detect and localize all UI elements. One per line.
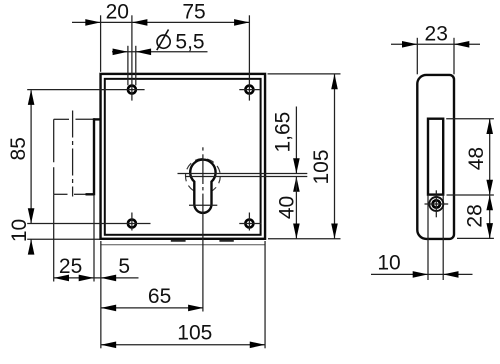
svg-text:20: 20 xyxy=(106,0,129,23)
svg-text:40: 40 xyxy=(275,196,298,219)
svg-text:48: 48 xyxy=(465,147,488,170)
svg-text:5: 5 xyxy=(118,255,130,278)
svg-text:28: 28 xyxy=(464,204,487,227)
svg-text:105: 105 xyxy=(310,149,333,184)
svg-text:85: 85 xyxy=(7,137,30,160)
svg-text:25: 25 xyxy=(59,255,82,278)
svg-text:10: 10 xyxy=(377,251,400,274)
svg-text:105: 105 xyxy=(177,322,212,345)
svg-text:65: 65 xyxy=(148,285,171,308)
svg-text:1,65: 1,65 xyxy=(272,112,295,153)
svg-text:23: 23 xyxy=(425,23,448,46)
svg-text:5,5: 5,5 xyxy=(175,31,204,54)
svg-text:75: 75 xyxy=(182,0,205,23)
